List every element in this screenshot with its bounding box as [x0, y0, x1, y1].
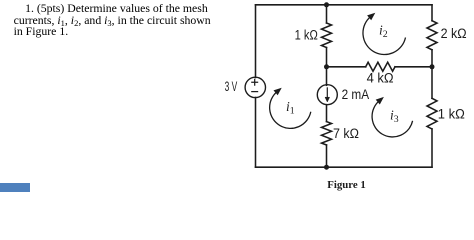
svg-text:4 kΩ: 4 kΩ: [367, 70, 394, 85]
svg-text:i2: i2: [379, 22, 388, 40]
wire: middle branch top lead: [326, 5, 328, 23]
svg-text:2 kΩ: 2 kΩ: [441, 26, 467, 41]
blue highlight bar: [0, 183, 30, 192]
wire: left branch upper (top wire to voltage source): [255, 5, 257, 78]
voltage source minus sign: [251, 91, 258, 93]
node: center junction: [324, 64, 329, 69]
wire: left branch lower (voltage source to bottom): [255, 98, 257, 168]
mesh arrow i3: [372, 97, 413, 137]
wire: middle branch lead to center node: [326, 48, 328, 67]
resistor R 1k (right bottom): [427, 98, 437, 129]
mesh arrow i2: [363, 13, 406, 55]
current source arrow: [325, 87, 330, 102]
problem statement text line 3: [14, 25, 69, 39]
svg-text:2 mA: 2 mA: [342, 87, 370, 102]
resistor R 4k (horizontal): [366, 62, 395, 71]
svg-text:Figure 1: Figure 1: [327, 179, 366, 191]
current source I1 circle: [317, 85, 337, 105]
node: top junction: [324, 2, 329, 7]
resistor R 1k (middle top): [322, 23, 332, 48]
wire: current source to 7k resistor: [326, 105, 328, 122]
svg-text:1 kΩ: 1 kΩ: [438, 107, 465, 122]
wire: middle horizontal right lead: [395, 66, 432, 68]
problem statement text line 2: [14, 14, 211, 28]
svg-text:i3: i3: [390, 107, 399, 125]
resistor R 7k: [322, 122, 332, 145]
wire: bottom horizontal: [256, 166, 433, 168]
wire: middle branch node to current source: [326, 67, 328, 86]
wire: right branch middle lead: [431, 50, 433, 99]
node: bottom junction: [324, 165, 329, 170]
mesh arrow i1: [270, 88, 311, 129]
wire: right branch bottom lead: [431, 129, 433, 167]
svg-text:7 kΩ: 7 kΩ: [333, 126, 359, 141]
wire: middle branch bottom lead: [326, 145, 328, 167]
node: right middle junction: [430, 64, 435, 69]
problem statement text line 1: [25, 2, 208, 16]
voltage source V1 circle: [245, 77, 265, 97]
svg-text:1 kΩ: 1 kΩ: [295, 28, 318, 43]
wire: right branch top lead: [431, 5, 433, 21]
svg-text:3 V: 3 V: [225, 79, 238, 94]
svg-text:i1: i1: [286, 99, 295, 117]
wire: top horizontal: [256, 4, 433, 6]
resistor R 2k (right top): [427, 21, 437, 50]
voltage source plus sign: [251, 79, 258, 92]
wire: middle horizontal left lead: [327, 66, 366, 68]
